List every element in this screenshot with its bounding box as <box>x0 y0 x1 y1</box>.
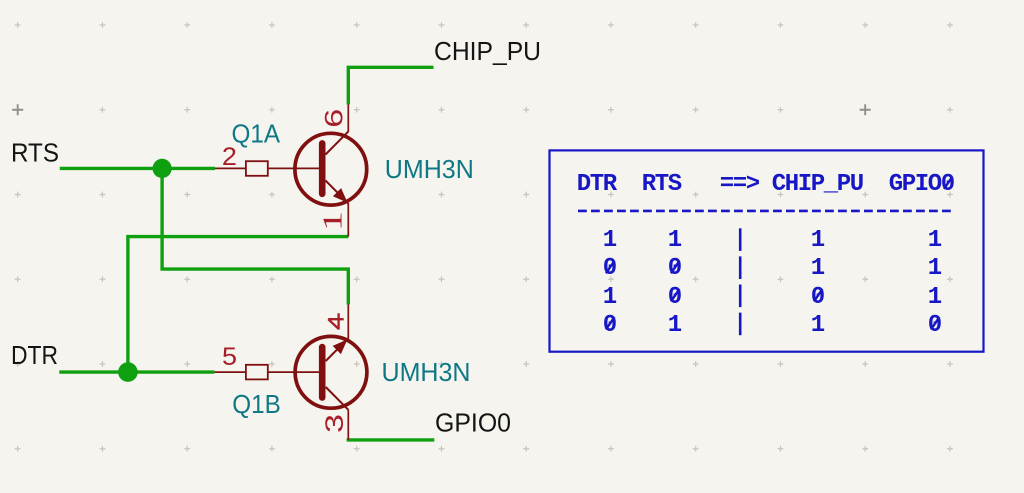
svg-text:6: 6 <box>321 109 349 128</box>
pin 2 wire (Q1A base) <box>215 167 246 169</box>
pin 3 wire (Q1B collector) <box>347 410 349 440</box>
truth table column bar row 1 <box>739 228 742 251</box>
pin 4 wire (Q1B emitter) <box>347 305 349 339</box>
wire DTR net <box>59 370 214 373</box>
svg-text:1: 1 <box>318 211 348 231</box>
truth table column bar row 3 <box>739 285 742 308</box>
base resistor of Q1B <box>246 365 268 380</box>
wire RTS net <box>60 167 215 170</box>
grid crosses (decorative) <box>15 22 953 452</box>
wire Q1A emitter to DTR node <box>128 237 348 373</box>
transistor Q1B <box>295 336 367 409</box>
wire RTS to Q1B emitter <box>162 168 348 304</box>
svg-text:RTS: RTS <box>11 140 59 168</box>
junction RTS node <box>153 159 172 178</box>
svg-text:UMH3N: UMH3N <box>382 359 471 387</box>
svg-text:UMH3N: UMH3N <box>385 156 474 184</box>
svg-text:Q1B: Q1B <box>232 391 280 419</box>
pin 6 wire (Q1A collector) <box>347 105 349 133</box>
svg-text:GPIO0: GPIO0 <box>435 409 511 437</box>
transistor Q1A <box>295 132 367 205</box>
svg-text:5: 5 <box>222 343 237 371</box>
truth table separator dashes <box>578 210 955 213</box>
svg-text:DTR: DTR <box>11 342 58 370</box>
pin 1 wire (Q1A emitter) <box>347 203 349 237</box>
svg-text:3: 3 <box>321 414 349 433</box>
slashed zero marks <box>606 177 952 330</box>
base resistor of Q1A <box>246 161 268 176</box>
junction DTR node <box>118 362 138 382</box>
svg-text:CHIP_PU: CHIP_PU <box>434 38 541 66</box>
svg-text:Q1A: Q1A <box>232 121 281 149</box>
truth table column bar row 2 <box>739 256 742 279</box>
wire GPIO0 net <box>347 438 435 441</box>
pin 5 wire (Q1B base) <box>214 371 246 373</box>
truth table text <box>577 171 954 340</box>
pin number 4 <box>328 313 344 329</box>
truth table column bar row 4 <box>739 313 742 336</box>
truth table frame <box>550 150 984 351</box>
wire CHIP_PU net <box>348 67 433 104</box>
